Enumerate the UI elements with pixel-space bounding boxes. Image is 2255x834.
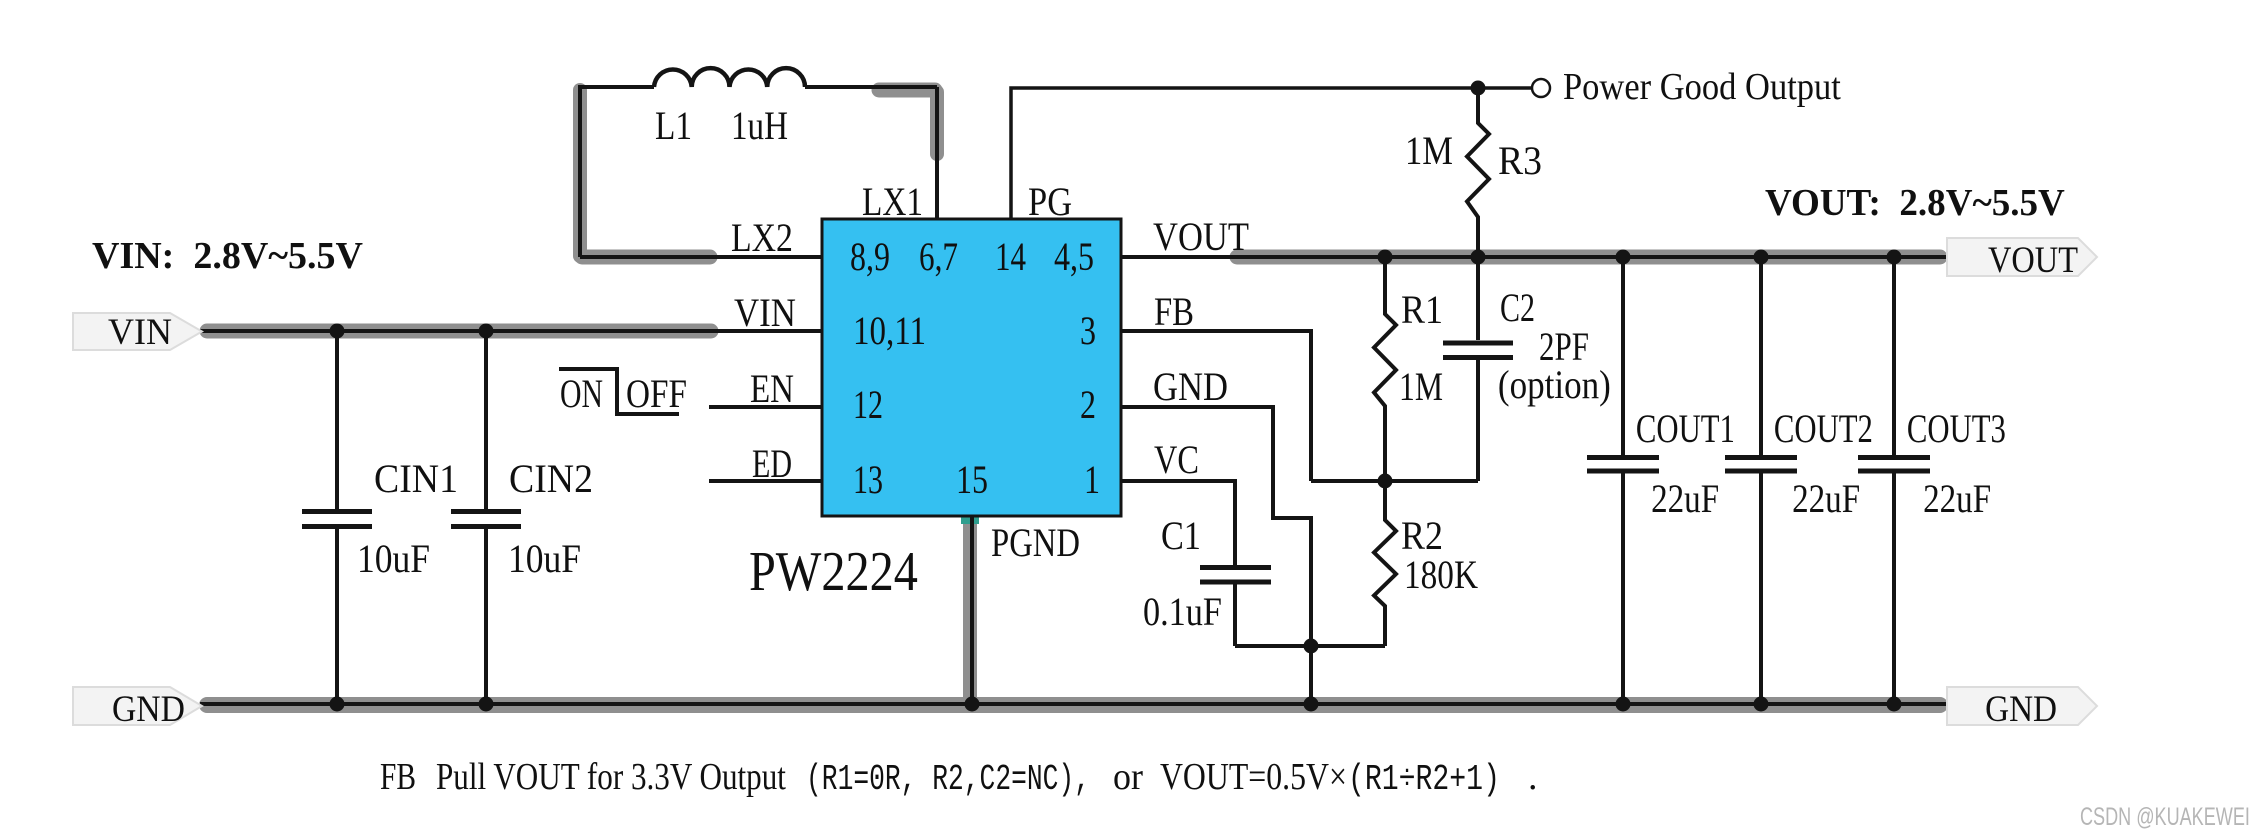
- svg-text:R3: R3: [1498, 139, 1542, 183]
- inductor L1: [654, 68, 805, 87]
- node VC GND junction: [1304, 639, 1319, 654]
- flag GND left: [73, 687, 202, 725]
- svg-text:ON: ON: [560, 372, 603, 416]
- svg-text:0.1uF: 0.1uF: [1143, 591, 1222, 635]
- wire gray highlight PGND vertical: [963, 520, 977, 702]
- wire gray highlight GND rail: [207, 697, 1940, 713]
- svg-text:4,5: 4,5: [1054, 235, 1094, 279]
- wire PG net: [1011, 88, 1531, 219]
- svg-text:13: 13: [853, 458, 883, 502]
- node VIN CIN2 junction: [479, 324, 494, 339]
- wire VIN rail: [200, 329, 822, 333]
- svg-text:(R1=0R, R2,C2=NC),: (R1=0R, R2,C2=NC),: [806, 760, 1090, 800]
- svg-text:VC: VC: [1154, 438, 1199, 482]
- wire GND pin jog: [1121, 407, 1311, 646]
- svg-text:CIN1: CIN1: [374, 457, 458, 501]
- switch ON/OFF level symbol: [559, 369, 679, 414]
- svg-text:R1: R1: [1401, 288, 1443, 332]
- wire gray highlight LX1 top horizontal: [879, 83, 935, 98]
- svg-text:PW2224: PW2224: [749, 541, 918, 603]
- svg-text:1M: 1M: [1405, 130, 1453, 174]
- node FB junction: [1378, 474, 1393, 489]
- svg-text:C2: C2: [1500, 286, 1535, 330]
- flag VOUT: [1947, 238, 2097, 276]
- capacitor CIN2: [451, 331, 521, 704]
- svg-text:3: 3: [1080, 309, 1096, 353]
- IC U1 PW2224 body: [822, 219, 1121, 516]
- svg-text:(option): (option): [1498, 363, 1611, 408]
- wire PGND black vertical: [970, 516, 974, 704]
- svg-text:PGND: PGND: [991, 520, 1080, 565]
- node VIN CIN1 junction: [330, 324, 345, 339]
- svg-text:VIN: VIN: [108, 311, 172, 353]
- wire C1 R2 bottom horizontal: [1235, 644, 1385, 648]
- svg-text:or: or: [1113, 756, 1143, 798]
- node VOUT R3 C2 junction: [1471, 250, 1486, 265]
- node VOUT COUT3 junction: [1887, 250, 1902, 265]
- svg-text:22uF: 22uF: [1651, 476, 1719, 521]
- svg-text:(R1÷R2+1): (R1÷R2+1): [1348, 759, 1500, 800]
- svg-text:CIN2: CIN2: [509, 457, 593, 501]
- svg-text:VOUT: VOUT: [1153, 216, 1249, 260]
- wire gray highlight LX net left vertical: [573, 90, 587, 256]
- wire L1 loop top left: [580, 85, 937, 257]
- svg-text:VOUT=0.5V×: VOUT=0.5V×: [1160, 755, 1347, 797]
- node VOUT COUT1 junction: [1616, 250, 1631, 265]
- svg-text:15: 15: [956, 458, 988, 502]
- capacitor COUT1: [1587, 257, 1659, 704]
- wire ED pin: [709, 479, 822, 483]
- PGND teal cap: [961, 511, 979, 524]
- svg-text:C1: C1: [1161, 515, 1201, 559]
- svg-text:COUT3: COUT3: [1907, 406, 2006, 451]
- svg-text:PG: PG: [1028, 181, 1072, 225]
- wire EN pin: [709, 405, 822, 409]
- svg-text:1M: 1M: [1399, 365, 1443, 409]
- svg-text:VOUT: VOUT: [1988, 239, 2078, 280]
- terminal Power Good Output open circle: [1532, 79, 1550, 97]
- svg-text:OFF: OFF: [626, 371, 687, 416]
- capacitor COUT2: [1725, 257, 1797, 704]
- svg-text:GND: GND: [112, 688, 185, 730]
- svg-text:VIN: VIN: [734, 292, 796, 336]
- svg-text:LX1: LX1: [862, 179, 923, 224]
- svg-text:GND: GND: [1985, 688, 2057, 729]
- capacitor C2: [1443, 257, 1513, 481]
- wire VOUT rail: [1121, 255, 1947, 259]
- svg-text:2: 2: [1080, 383, 1096, 427]
- svg-text:180K: 180K: [1404, 552, 1478, 597]
- svg-text:14: 14: [995, 234, 1026, 279]
- svg-text:GND: GND: [1153, 366, 1228, 410]
- node GND CIN2: [479, 697, 494, 712]
- svg-text:.: .: [1528, 756, 1538, 798]
- resistor R2: [1374, 481, 1396, 646]
- wire gray highlight LX1 right vertical: [930, 92, 944, 154]
- svg-text:L1: L1: [655, 103, 692, 148]
- capacitor CIN1: [302, 331, 372, 704]
- node VOUT COUT2 junction: [1754, 250, 1769, 265]
- wire GND rail: [200, 702, 1947, 706]
- node GND CIN1: [330, 697, 345, 712]
- resistor R1: [1374, 257, 1396, 481]
- svg-text:CSDN @KUAKEWEI: CSDN @KUAKEWEI: [2080, 802, 2250, 831]
- node GND COUT1: [1616, 697, 1631, 712]
- svg-text:22uF: 22uF: [1923, 476, 1991, 521]
- wire FB pin: [1121, 331, 1311, 481]
- svg-text:10,11: 10,11: [853, 308, 926, 353]
- svg-text:1: 1: [1084, 458, 1100, 502]
- resistor R3: [1467, 88, 1489, 257]
- wire gray highlight VIN rail: [207, 324, 711, 339]
- svg-text:VIN: 2.8V~5.5V: VIN: 2.8V~5.5V: [92, 235, 364, 277]
- svg-text:LX2: LX2: [731, 216, 793, 260]
- wire VC pin: [1121, 481, 1235, 566]
- svg-text:12: 12: [853, 383, 883, 427]
- svg-text:COUT2: COUT2: [1774, 406, 1873, 451]
- svg-text:10uF: 10uF: [357, 537, 430, 581]
- svg-text:8,9: 8,9: [850, 235, 890, 279]
- node GND COUT3: [1887, 697, 1902, 712]
- svg-text:6,7: 6,7: [919, 234, 958, 279]
- svg-text:EN: EN: [750, 366, 794, 411]
- svg-text:Power Good Output: Power Good Output: [1563, 65, 1841, 107]
- svg-text:FB: FB: [380, 757, 416, 798]
- svg-text:FB: FB: [1154, 289, 1194, 334]
- svg-text:ED: ED: [752, 441, 792, 486]
- node GND COUT2: [1754, 697, 1769, 712]
- flag GND right: [1947, 687, 2097, 725]
- svg-text:10uF: 10uF: [508, 537, 581, 581]
- capacitor COUT3: [1858, 257, 1930, 704]
- svg-text:COUT1: COUT1: [1636, 406, 1735, 451]
- flag VIN: [73, 313, 202, 350]
- node GND PGND: [965, 697, 980, 712]
- svg-text:22uF: 22uF: [1792, 476, 1860, 521]
- svg-text:Pull VOUT for 3.3V Output: Pull VOUT for 3.3V Output: [436, 755, 786, 798]
- node PG junction: [1471, 81, 1486, 96]
- node GND VC column: [1304, 697, 1319, 712]
- node VOUT R1 junction: [1378, 250, 1393, 265]
- svg-text:VOUT: 2.8V~5.5V: VOUT: 2.8V~5.5V: [1765, 183, 2065, 225]
- wire junction to GND rail: [1309, 646, 1313, 704]
- wire FB R1 R2 C2 junction horizontal: [1311, 479, 1478, 483]
- capacitor C1: [1200, 568, 1271, 647]
- wire gray highlight LX2 bottom horizontal: [582, 250, 710, 265]
- svg-text:1uH: 1uH: [731, 103, 788, 148]
- wire gray highlight VOUT rail: [1237, 250, 1940, 265]
- wire LX1 vertical to IC: [935, 87, 939, 219]
